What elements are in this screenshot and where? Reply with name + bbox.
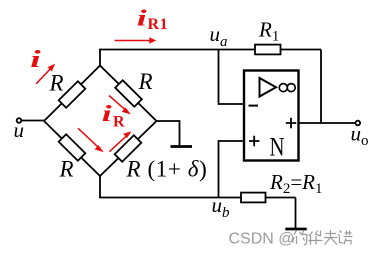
svg-text:R: R: [49, 70, 64, 95]
op-amp minus sign: [249, 105, 259, 107]
svg-text:i: i: [102, 101, 113, 126]
svg-text:R: R: [59, 157, 74, 182]
resistor R1: [255, 45, 281, 55]
resistor R(1+delta) bottom-right: [115, 135, 142, 162]
svg-text:R2=R1: R2=R1: [269, 170, 323, 197]
op-amp infinity symbol: [279, 84, 287, 92]
wire output: [299, 122, 356, 124]
resistor R top-right: [115, 80, 142, 107]
svg-text:uo: uo: [351, 122, 369, 150]
svg-text:CSDN @: CSDN @: [229, 231, 295, 248]
wire bridge arm left-top: [44, 66, 100, 122]
wire right vertex to ground: [157, 121, 180, 146]
svg-text:ua: ua: [210, 22, 228, 50]
wire input to bridge left vertex: [22, 120, 45, 122]
wire feedback vertical down to output node: [320, 50, 322, 124]
resistor R top-left: [59, 81, 86, 108]
op-amp U1 box: [244, 71, 299, 161]
wire ub vertical to op-amp plus input: [219, 141, 245, 198]
wire bottom vertex down: [99, 176, 101, 198]
svg-text:R: R: [113, 114, 125, 131]
wire bridge arm top-right: [100, 66, 157, 122]
node ua wire: drop from top rail to op-amp minus input: [219, 50, 245, 105]
svg-text:i: i: [30, 46, 41, 73]
op-amp plus sign (noninverting input): [249, 136, 260, 147]
arrow iR left (through bottom-left R): [78, 128, 100, 148]
svg-text:R1: R1: [258, 18, 279, 45]
op-amp triangle symbol: [260, 78, 277, 97]
wire bottom rail: [99, 197, 295, 199]
resistor R bottom-left: [59, 134, 86, 161]
wire bridge arm bottom-right: [100, 121, 157, 176]
arrow iR top (through top-right R): [109, 96, 127, 111]
ground (bottom right): [285, 228, 306, 231]
svg-text:R: R: [138, 69, 153, 94]
svg-text:u: u: [14, 118, 25, 142]
watermark CJK glyphs (drawn): [293, 230, 353, 245]
resistor R2: [241, 193, 266, 203]
arrow i: [36, 68, 51, 84]
ground (bridge right): [171, 145, 193, 148]
op-amp plus sign (output side): [286, 118, 296, 129]
wire top vertex up: [99, 50, 101, 66]
wire bridge arm left-bottom: [44, 121, 100, 176]
wire top rail to feedback corner: [99, 49, 321, 51]
input terminal u: [17, 118, 22, 123]
svg-text:i: i: [137, 6, 148, 31]
wire down to ground (right bottom): [295, 198, 297, 229]
svg-text:R (1+ δ): R (1+ δ): [126, 157, 208, 182]
arrow iR right (through R(1+delta)): [109, 135, 127, 151]
arrow iR1: [115, 40, 152, 42]
svg-text:R1: R1: [148, 16, 169, 33]
svg-text:N: N: [270, 133, 285, 162]
output terminal uo: [356, 121, 361, 126]
